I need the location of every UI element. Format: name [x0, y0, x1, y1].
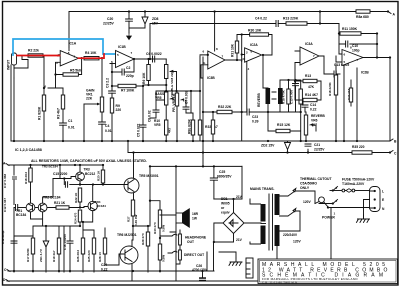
svg-text:C3 2.2: C3 2.2	[106, 78, 110, 88]
svg-text:0.5W: 0.5W	[162, 255, 166, 262]
svg-text:IC 1,2,3 CA1458: IC 1,2,3 CA1458	[15, 148, 42, 152]
vertical drops to bottom rail	[14, 207, 16, 209]
svg-text:equiv: equiv	[221, 211, 230, 215]
node A arrow	[388, 12, 391, 14]
svg-text:R1b 470K: R1b 470K	[282, 89, 286, 104]
capacitor C6 0.0022	[153, 56, 155, 62]
resistor R5 5k6 feedback	[78, 58, 81, 74]
svg-text:R3 4k7: R3 4k7	[57, 108, 61, 119]
svg-text:C4: C4	[105, 124, 109, 128]
wire rail C	[203, 152, 390, 154]
svg-text:C16 10/25V: C16 10/25V	[63, 233, 67, 250]
wire input to R2	[14, 56, 28, 79]
capacitor C20 22/25V	[128, 12, 130, 20]
svg-text:MAINS TRANS.: MAINS TRANS.	[250, 187, 275, 191]
svg-text:R7 100K: R7 100K	[121, 89, 135, 93]
capacitor C4b 0.01	[99, 122, 106, 124]
svg-text:C7 0.002: C7 0.002	[185, 90, 189, 104]
svg-text:TR6 MJ2501: TR6 MJ2501	[117, 233, 137, 237]
svg-text:R4 10K: R4 10K	[85, 51, 97, 55]
svg-text:IC1B: IC1B	[118, 45, 126, 49]
svg-text:A: A	[393, 13, 396, 17]
svg-text:L: L	[382, 190, 384, 194]
svg-text:C20: C20	[107, 17, 113, 21]
svg-text:IC2B: IC2B	[361, 71, 369, 75]
svg-text:0: 0	[336, 199, 338, 203]
resistor R3 4k7	[62, 88, 64, 95]
resistor R9 220	[110, 98, 113, 113]
svg-text:BC212: BC212	[85, 172, 95, 176]
resistor R4 10K	[84, 57, 99, 60]
svg-text:R40 470: R40 470	[153, 222, 157, 234]
resistor R41	[158, 244, 161, 260]
mains connector	[370, 187, 381, 212]
svg-text:HEADPHONE: HEADPHONE	[185, 236, 207, 240]
resistor R24 470	[78, 210, 81, 222]
wire speaker feed rail	[150, 153, 242, 167]
wire blue highlight path	[13, 39, 116, 55]
svg-text:C14: C14	[310, 103, 316, 107]
svg-text:C: C	[394, 152, 397, 156]
svg-text:R2 22k: R2 22k	[28, 49, 39, 53]
capacitor C2 220p feedback	[125, 59, 135, 72]
svg-text:R30 10K: R30 10K	[248, 29, 262, 33]
svg-text:TR2 BC184: TR2 BC184	[42, 165, 58, 169]
svg-text:C4 0.22: C4 0.22	[255, 17, 267, 21]
svg-text:R20 1K: R20 1K	[97, 170, 101, 181]
svg-text:VR6: VR6	[311, 119, 318, 123]
title block	[258, 259, 398, 284]
svg-text:C1: C1	[68, 119, 72, 123]
svg-text:21V: 21V	[236, 238, 243, 242]
svg-text:R14 4K7: R14 4K7	[305, 93, 318, 97]
capacitor C23 0.39	[242, 111, 246, 113]
resistor R13 220K	[278, 23, 286, 25]
svg-text:1W: 1W	[192, 217, 198, 221]
svg-text:C6 0.0022: C6 0.0022	[146, 52, 162, 56]
svg-text:C24: C24	[101, 263, 107, 267]
svg-text:C8 0.02: C8 0.02	[148, 110, 152, 122]
switch pole 1	[332, 189, 334, 191]
svg-text:REVERB: REVERB	[311, 114, 325, 118]
resistor R16b	[299, 89, 302, 104]
svg-text:R18 2K2: R18 2K2	[24, 172, 28, 184]
wire long vertical right	[356, 68, 358, 141]
wire R5 to R1/R3	[48, 75, 63, 89]
svg-text:C12 0.047: C12 0.047	[3, 198, 7, 212]
svg-text:ZD2 15V: ZD2 15V	[261, 144, 275, 148]
svg-text:ONLY: ONLY	[300, 186, 310, 190]
svg-text:R24 470: R24 470	[74, 212, 78, 224]
capacitor C10 100p	[339, 34, 346, 45]
svg-text:220: 220	[116, 108, 122, 112]
svg-text:B: B	[394, 140, 397, 144]
svg-text:R21 1K: R21 1K	[54, 201, 66, 205]
svg-text:47K: 47K	[308, 85, 315, 89]
svg-text:TREBLE VR8 22C: TREBLE VR8 22C	[170, 70, 174, 97]
svg-text:C12 220p: C12 220p	[1, 230, 5, 244]
resistor R16 680K	[349, 88, 352, 102]
svg-text:120V: 120V	[303, 200, 312, 204]
wire	[319, 12, 321, 24]
svg-text:7: 7	[131, 51, 133, 55]
svg-text:C17 0.068: C17 0.068	[3, 174, 7, 188]
svg-text:DIRECT OUT: DIRECT OUT	[184, 253, 204, 257]
svg-text:TR5 MJ3001: TR5 MJ3001	[139, 174, 159, 178]
resistor R9a 820K	[198, 120, 201, 135]
svg-text:N: N	[382, 207, 385, 211]
resistor R6 10K	[148, 59, 150, 65]
wire bridge connections	[214, 199, 242, 242]
svg-text:7: 7	[222, 55, 224, 59]
resistor R22 1K	[78, 188, 81, 202]
svg-text:C: C	[4, 268, 7, 272]
wire left long vertical	[202, 57, 204, 141]
resistor R8a 680	[356, 10, 370, 13]
svg-text:C2: C2	[126, 66, 130, 70]
svg-text:R17 820K: R17 820K	[26, 247, 30, 262]
svg-text:T160mA-220V: T160mA-220V	[342, 182, 365, 186]
svg-text:C10: C10	[352, 44, 358, 48]
svg-text:R6 10K: R6 10K	[142, 72, 146, 84]
svg-text:4k7: 4k7	[168, 127, 172, 133]
svg-text:or: or	[221, 206, 225, 210]
wire input ground	[14, 60, 28, 142]
wire op-amp out	[78, 57, 84, 59]
svg-text:E: E	[382, 198, 385, 202]
svg-text:0: 0	[336, 186, 338, 190]
capacitor C3 2.2	[110, 64, 112, 92]
wire IC1B output	[134, 58, 154, 60]
svg-text:R5 5k6: R5 5k6	[70, 69, 81, 73]
svg-text:0.39: 0.39	[252, 120, 259, 124]
switch pole 2	[332, 202, 334, 204]
wire IC1B out to C4	[150, 24, 276, 60]
chassis ground pan	[229, 258, 242, 265]
wire main ground rail	[11, 140, 390, 142]
svg-text:R35 220: R35 220	[352, 145, 365, 149]
svg-text:R8a 680: R8a 680	[356, 15, 369, 19]
wire transformer primary taps	[280, 189, 296, 197]
svg-text:100p: 100p	[352, 49, 360, 53]
wire A rail	[8, 165, 103, 175]
svg-text:IC2A: IC2A	[250, 43, 258, 47]
wire +V power rail	[128, 141, 203, 153]
svg-text:22/25V: 22/25V	[314, 148, 325, 152]
node B arrow	[390, 139, 393, 141]
wire IC3B supply drop	[214, 12, 216, 52]
svg-text:2: 2	[56, 61, 58, 65]
svg-text:8: 8	[216, 47, 218, 51]
svg-text:R28 10: R28 10	[98, 252, 102, 262]
svg-text:22K: 22K	[86, 97, 93, 101]
capacitor C1 0.01	[62, 109, 64, 123]
resistor R7 100K	[118, 84, 136, 87]
svg-text:R31 10K: R31 10K	[231, 43, 235, 57]
lamp neon	[315, 202, 319, 204]
svg-text:R22 1K: R22 1K	[74, 192, 78, 203]
svg-text:21V: 21V	[236, 195, 243, 199]
svg-text:C21: C21	[314, 143, 320, 147]
svg-text:R19 4k7: R19 4k7	[52, 250, 56, 262]
svg-text:R13: R13	[305, 74, 311, 78]
svg-text:IC3A: IC3A	[305, 42, 313, 46]
svg-text:R32 22K: R32 22K	[218, 105, 232, 109]
svg-text:ZD8: ZD8	[152, 17, 159, 21]
svg-text:OUT: OUT	[187, 240, 194, 244]
svg-text:0.5W: 0.5W	[162, 225, 166, 232]
svg-text:ZD1 4.7V: ZD1 4.7V	[39, 248, 43, 262]
svg-text:0.01: 0.01	[105, 129, 112, 133]
svg-text:120V: 120V	[293, 240, 302, 244]
svg-text:C25: C25	[219, 170, 225, 174]
svg-text:POWER: POWER	[322, 216, 335, 220]
svg-text:IC1A: IC1A	[69, 42, 77, 46]
jack footswitch	[246, 258, 253, 278]
svg-text:22/25V: 22/25V	[103, 22, 114, 26]
svg-text:FUSE T500mA-120V: FUSE T500mA-120V	[342, 178, 375, 182]
svg-text:R13 220K: R13 220K	[283, 17, 299, 21]
svg-text:220p: 220p	[126, 74, 134, 78]
svg-text:BC184: BC184	[97, 204, 107, 208]
zener ZD8 15V	[144, 12, 146, 18]
wire tone top bus	[156, 56, 200, 113]
svg-text:INPUT: INPUT	[7, 59, 11, 70]
fuse F1	[342, 189, 345, 192]
wire IC2A out to reverb	[262, 55, 264, 88]
svg-text:REVERB: REVERB	[257, 93, 261, 107]
svg-text:0.01: 0.01	[68, 126, 75, 130]
svg-text:R29 470: R29 470	[141, 233, 145, 245]
wire speaker feed	[133, 166, 150, 226]
svg-text:R15 12K: R15 12K	[277, 123, 291, 127]
svg-text:R18 220K: R18 220K	[328, 81, 332, 96]
svg-text:C5 0.022: C5 0.022	[137, 123, 141, 137]
wire +V top rail	[69, 12, 388, 48]
svg-text:ALL RESISTORS 1/4W, CAPACITORS: ALL RESISTORS 1/4W, CAPACITORS uF 50V AX…	[31, 159, 147, 163]
svg-text:TR2 BC184: TR2 BC184	[43, 196, 61, 200]
capacitor C4 0.22	[276, 21, 278, 27]
svg-text:W005: W005	[221, 202, 230, 206]
svg-text:THERMAL CUTOUT: THERMAL CUTOUT	[300, 177, 332, 181]
node C arrow	[390, 151, 393, 153]
resistor R1 820K	[43, 88, 45, 95]
svg-text:C23: C23	[252, 115, 258, 119]
wire red highlight path	[17, 54, 104, 58]
svg-text:R11 150K: R11 150K	[342, 27, 358, 31]
resistor R2 22k	[28, 54, 43, 57]
svg-text:6: 6	[203, 50, 205, 54]
svg-text:R25 220: R25 220	[87, 250, 91, 262]
svg-text:4: 4	[248, 67, 250, 71]
svg-text:BC184: BC184	[16, 213, 26, 217]
wire bass bus to R9a	[177, 90, 200, 92]
svg-text:R26 2K2: R26 2K2	[76, 250, 80, 262]
svg-text:R1 820K: R1 820K	[38, 106, 42, 120]
svg-text:D: D	[3, 278, 6, 282]
svg-text:R27: R27	[127, 216, 131, 222]
svg-text:220/240V: 220/240V	[283, 233, 298, 237]
svg-text:16R: 16R	[192, 212, 199, 216]
wire IC2B out node B	[363, 58, 390, 142]
svg-text:C.B. 11-11-86 TWO M.N.: C.B. 11-11-86 TWO M.N.	[262, 280, 298, 284]
svg-text:0.22: 0.22	[310, 108, 317, 112]
speaker	[176, 213, 183, 223]
svg-text:VR5: VR5	[154, 123, 161, 127]
chassis ground	[357, 215, 370, 222]
ground	[128, 28, 130, 33]
svg-text:C5A/50MO: C5A/50MO	[300, 182, 317, 186]
svg-text:IC3B: IC3B	[207, 76, 215, 80]
svg-text:C13 0.005: C13 0.005	[290, 90, 294, 104]
svg-text:6800/35V: 6800/35V	[217, 175, 232, 179]
